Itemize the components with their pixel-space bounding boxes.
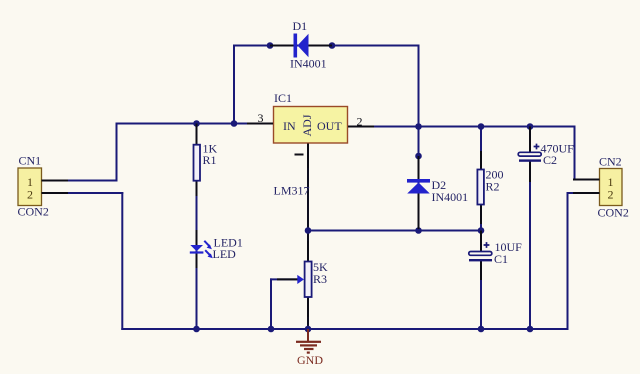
junction bottom rail C1 — [478, 326, 485, 333]
wire C1 vertical lower — [480, 261, 482, 330]
junction OUT rail C2 — [527, 123, 534, 130]
svg-text:C1: C1 — [494, 252, 508, 266]
svg-text:C2: C2 — [543, 153, 557, 167]
junction input rail R1 — [193, 120, 200, 127]
capacitor C2 — [518, 127, 541, 183]
wire input rail (CN1 pin1 to IC IN) — [116, 123, 274, 125]
wire D1 branch right vertical — [418, 45, 420, 128]
pin 2 lead of IC1 — [348, 126, 374, 128]
wire D1 branch left vertical — [233, 45, 235, 125]
svg-text:3: 3 — [258, 111, 264, 125]
svg-text:D1: D1 — [293, 19, 308, 33]
pin 1 lead of CN2 — [573, 179, 600, 181]
junction bottom rail wiper — [268, 326, 275, 333]
wire CN2 pin2 horizontal — [567, 192, 600, 194]
junction bottom rail LED — [193, 326, 200, 333]
wire R2 C1 vertical upper — [480, 126, 482, 253]
junction ADJ rail left — [305, 227, 312, 234]
connector CN1 — [18, 168, 42, 206]
diode D2 — [407, 156, 430, 229]
svg-text:CON2: CON2 — [18, 205, 49, 219]
wire bottom rail — [121, 328, 568, 330]
op-amp U1 body (regulator IC1 LM317) — [274, 107, 348, 144]
junction ADJ rail R2 C1 — [478, 227, 485, 234]
ground — [296, 329, 321, 354]
wire ADJ vertical upper — [307, 143, 309, 261]
svg-text:CN1: CN1 — [19, 154, 42, 168]
svg-text:CON2: CON2 — [598, 206, 629, 220]
wire R1 LED vertical — [196, 123, 198, 331]
svg-text:IC1: IC1 — [274, 91, 292, 105]
wire OUT rail — [348, 126, 576, 128]
capacitor C1 — [469, 231, 492, 281]
wire C2 vertical upper — [529, 126, 531, 153]
wire ADJ vertical lower — [307, 298, 309, 330]
wire CN2 pin1 vertical — [574, 126, 576, 181]
svg-text:2: 2 — [357, 115, 363, 129]
junction D2 pin top — [415, 153, 422, 160]
wire R3 wiper horizontal — [270, 278, 298, 280]
svg-text:R1: R1 — [203, 153, 217, 167]
connector CN2 — [600, 169, 623, 206]
resistor R2 — [477, 151, 484, 224]
LED LED1 — [190, 230, 213, 268]
pin number 1 (rotated dash) — [295, 154, 304, 156]
junction bottom rail C2 — [527, 326, 534, 333]
svg-text:R3: R3 — [313, 272, 327, 286]
pin 2 lead of CN1 — [42, 192, 69, 194]
svg-text:GND: GND — [297, 353, 323, 367]
junction OUT rail D2 — [415, 123, 422, 130]
junction D1 cathode — [329, 42, 336, 49]
junction D1 anode — [267, 42, 274, 49]
svg-text:ADJ: ADJ — [300, 114, 314, 136]
wire CN2 pin1 horizontal — [574, 179, 600, 181]
svg-text:LED: LED — [213, 247, 237, 261]
diode D1 — [270, 34, 332, 58]
svg-text:2: 2 — [27, 188, 33, 202]
svg-text:IN4001: IN4001 — [290, 57, 327, 71]
svg-text:IN: IN — [283, 119, 296, 133]
wire CN1 pin1 horizontal — [42, 180, 118, 182]
svg-text:CN2: CN2 — [599, 155, 622, 169]
pin 1 lead of CN1 — [42, 180, 69, 182]
wire CN2 pin2 vertical — [567, 192, 569, 330]
junction input rail D1 branch — [231, 120, 238, 127]
wire CN1 pin1 vertical — [116, 123, 118, 182]
junction ADJ rail D2 — [415, 227, 422, 234]
svg-text:LM317: LM317 — [274, 184, 310, 198]
resistor R3 potentiometer — [277, 241, 312, 317]
wire D1 branch horizontal — [233, 45, 420, 47]
svg-text:2: 2 — [608, 188, 614, 202]
pin 2 lead of CN2 — [573, 192, 600, 194]
wire C2 vertical lower — [529, 161, 531, 331]
svg-text:IN4001: IN4001 — [432, 190, 469, 204]
resistor R1 — [194, 124, 201, 197]
wire CN1 pin2 horizontal — [42, 192, 124, 194]
svg-text:OUT: OUT — [317, 119, 342, 133]
wire ADJ horizontal rail — [307, 230, 482, 232]
svg-text:R2: R2 — [486, 180, 500, 194]
pin 1 lead of IC1 (ADJ) — [307, 144, 309, 169]
wire D2 branch vertical — [418, 127, 420, 232]
junction bottom rail GND — [305, 326, 312, 333]
junction OUT rail R2 — [478, 123, 485, 130]
wire CN1 pin2 vertical — [121, 192, 123, 330]
pin 3 lead of IC1 — [247, 123, 273, 125]
wire R3 wiper vertical — [270, 278, 272, 330]
